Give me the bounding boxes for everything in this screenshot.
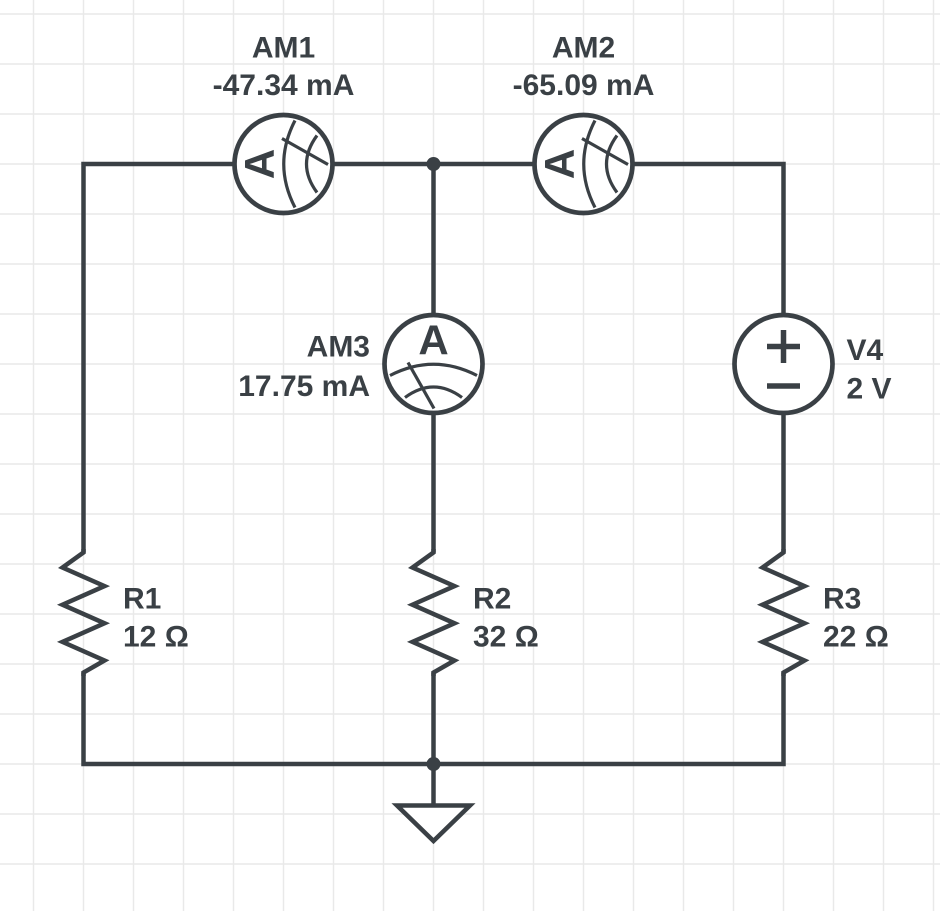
svg-text:2 V: 2 V: [847, 373, 892, 406]
wire top-left to R1: [84, 164, 233, 553]
wire AM2 to V4: [635, 164, 784, 313]
ammeter AM2: [535, 115, 633, 213]
ammeter AM1: [235, 115, 333, 213]
svg-text:V4: V4: [847, 334, 884, 367]
label R3 22 ohm: [823, 583, 889, 654]
svg-text:AM1: AM1: [252, 32, 315, 65]
voltage source V4: [735, 315, 833, 413]
wire node to AM3: [431, 164, 436, 313]
label R1 12 ohm: [123, 583, 189, 654]
svg-text:12 Ω: 12 Ω: [123, 621, 189, 654]
label AM1 -47.34 mA: [213, 32, 355, 103]
resistor R2: [413, 549, 455, 676]
label V4 2 V: [847, 334, 892, 406]
svg-text:32 Ω: 32 Ω: [473, 621, 539, 654]
svg-text:AM2: AM2: [552, 32, 615, 65]
node top junction: [427, 157, 441, 171]
resistor R1: [63, 549, 105, 676]
wire ground stub: [431, 764, 436, 805]
svg-text:AM3: AM3: [307, 331, 370, 364]
svg-text:R3: R3: [823, 583, 861, 616]
label R2 32 ohm: [473, 583, 539, 654]
wire AM1 to AM2: [335, 162, 533, 167]
label AM2 -65.09 mA: [513, 32, 655, 103]
svg-text:17.75 mA: 17.75 mA: [238, 370, 370, 403]
resistor R3: [763, 549, 805, 676]
ground: [397, 806, 470, 842]
svg-text:R2: R2: [473, 583, 511, 616]
svg-text:R1: R1: [123, 583, 161, 616]
wire R1 to bottom node: [84, 673, 434, 765]
wire R2 to bottom node: [431, 673, 436, 765]
wire V4 to R3: [781, 415, 786, 553]
svg-text:22 Ω: 22 Ω: [823, 621, 889, 654]
node bottom junction: [427, 757, 441, 771]
ammeter AM3: [385, 315, 483, 413]
label AM3 17.75 mA: [238, 331, 370, 404]
wire AM3 to R2: [431, 415, 436, 553]
svg-text:-65.09 mA: -65.09 mA: [513, 69, 655, 102]
wire R3 to bottom node: [434, 673, 784, 765]
svg-text:-47.34 mA: -47.34 mA: [213, 69, 355, 102]
